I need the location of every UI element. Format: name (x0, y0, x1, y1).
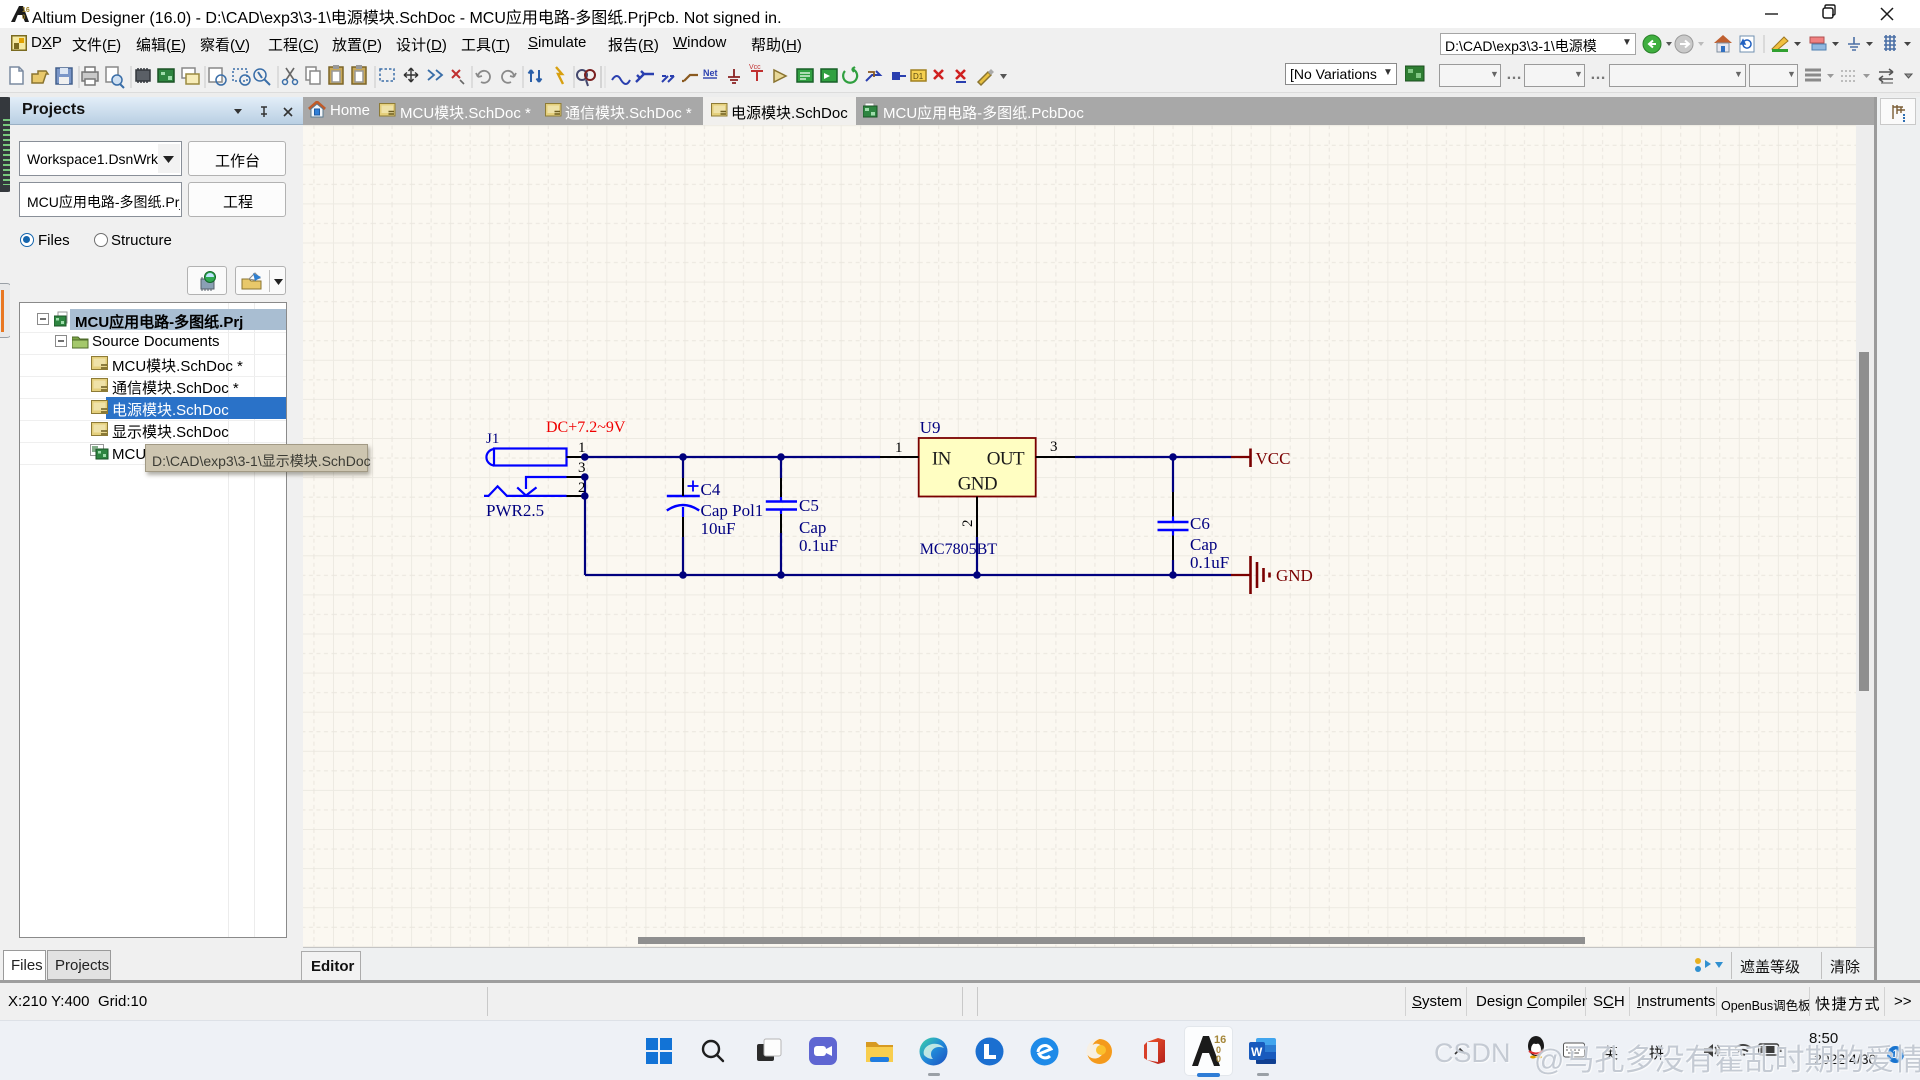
wire C5 top stub (780, 457, 782, 478)
junction (1173,457) (1169, 453, 1177, 461)
svg-text:IN: IN (932, 448, 952, 469)
junction (781,575) (777, 571, 785, 579)
watermark (1434, 1038, 1518, 1069)
U9 pin 1 (880, 456, 919, 458)
svg-text:Net: Net (703, 68, 718, 78)
svg-text:Vcc: Vcc (749, 64, 761, 71)
two buttons (187, 266, 227, 295)
header (10, 97, 303, 125)
svg-text:Cap: Cap (1190, 535, 1217, 554)
row 3 (91, 356, 109, 371)
scrollbars (1859, 352, 1869, 691)
junction (1173,575) (1169, 571, 1177, 579)
wire C6 top stub (1172, 457, 1174, 492)
junction (585,477) (581, 473, 589, 481)
svg-text:OUT: OUT (987, 448, 1025, 469)
zooms (209, 68, 222, 82)
e circle (1030, 1037, 1059, 1066)
row 5 selected (106, 397, 287, 419)
tree box (19, 302, 287, 938)
capacitor C5 (766, 478, 797, 533)
svg-text:0.1uF: 0.1uF (799, 536, 838, 555)
filter (577, 70, 587, 80)
MCU模块 tab (379, 103, 396, 117)
word (1249, 1037, 1277, 1065)
PcbDoc tab (863, 102, 880, 118)
wire U9 pin2 drop (976, 537, 978, 575)
svg-text:MC7805BT: MC7805BT (920, 541, 998, 558)
svg-text:W: W (1251, 1045, 1263, 1059)
junction (683,575) (679, 571, 687, 579)
junction (781,457) (777, 453, 785, 461)
svg-text:GND: GND (1276, 566, 1313, 585)
svg-text:PWR2.5: PWR2.5 (486, 501, 544, 520)
row 7 (90, 444, 109, 460)
tray (1452, 1044, 1468, 1060)
capacitor C6 (1158, 492, 1189, 560)
svg-text:C6: C6 (1190, 514, 1210, 533)
wire C6 bottom stub (1172, 560, 1174, 575)
cross probe / wand (529, 70, 542, 82)
svg-text:2: 2 (960, 520, 976, 528)
J1 pin 3 (567, 476, 585, 478)
print/preview (82, 72, 98, 81)
svg-text:GND: GND (958, 474, 997, 495)
svg-text:3: 3 (1050, 439, 1058, 455)
connector J1 (484, 449, 567, 496)
J1 pin 1 (567, 456, 585, 458)
row 2 (55, 335, 67, 347)
divider + right strip (1874, 97, 1877, 982)
workspace row (19, 141, 182, 176)
svg-text:Cap Pol1: Cap Pol1 (701, 501, 764, 520)
capacitor C4 (667, 478, 700, 537)
power port GND (1231, 556, 1313, 594)
svg-text:16: 16 (22, 7, 30, 14)
svg-text:D1: D1 (913, 72, 924, 81)
office (1141, 1037, 1169, 1065)
row 6 (91, 422, 109, 437)
orange swirl (1085, 1037, 1114, 1066)
svg-text:C4: C4 (701, 480, 721, 499)
Home tab (308, 101, 326, 118)
new / open / save (10, 67, 23, 84)
copilot/shield (975, 1037, 1004, 1066)
right side of menu row: address bar + nav icons (1440, 33, 1636, 55)
junction (585,496) (581, 492, 589, 500)
chat (809, 1037, 838, 1066)
row 4 (91, 378, 109, 393)
explorer (865, 1038, 895, 1065)
right combos (1439, 64, 1501, 87)
wire top rail right (1075, 456, 1231, 458)
svg-text:0.1uF: 0.1uF (1190, 553, 1229, 572)
task view (756, 1038, 783, 1065)
wire C4 top stub (682, 457, 684, 478)
svg-text:J1: J1 (486, 431, 499, 447)
svg-text:VCC: VCC (1256, 449, 1291, 468)
junction (977,575) (973, 571, 981, 579)
通信模块 tab (545, 103, 562, 117)
svg-text:Cap: Cap (799, 518, 826, 537)
svg-text:C5: C5 (799, 496, 819, 515)
cut/copy/paste/paste2 (286, 68, 294, 80)
J1 pin 2 (567, 495, 585, 497)
svg-text:DC+7.2~9V: DC+7.2~9V (546, 419, 626, 436)
tooltip (145, 444, 368, 472)
radios (20, 233, 34, 247)
regulator U9 (919, 438, 1036, 497)
svg-text:0: 0 (1216, 1054, 1221, 1064)
wire bottom rail (585, 574, 1231, 576)
power port VCC (1231, 449, 1290, 469)
junction (585,457) (581, 453, 589, 461)
active tab bg (703, 97, 856, 125)
U9 pin 3 (1036, 456, 1075, 458)
edge (919, 1037, 948, 1066)
chip / pcb / docs (136, 70, 150, 81)
junction (683,457) (679, 453, 687, 461)
search (700, 1038, 726, 1064)
select / move / arrows / clear (380, 69, 394, 81)
svg-text:1: 1 (895, 440, 903, 456)
wire top rail left (585, 456, 880, 458)
win (645, 1037, 673, 1065)
altium active (1184, 1026, 1233, 1076)
wiring tools (612, 76, 630, 84)
wire J1 ground drop (584, 477, 586, 575)
wire C4 bottom stub (682, 537, 684, 575)
wire C5 bottom stub (780, 533, 782, 575)
svg-text:10uF: 10uF (701, 519, 736, 538)
U9 pin 2 (976, 497, 978, 538)
project row (19, 182, 182, 217)
active tab (711, 103, 728, 117)
row 1: project node (inactive selection) (70, 309, 287, 330)
svg-text:U9: U9 (920, 418, 941, 437)
undo/redo (476, 71, 490, 83)
